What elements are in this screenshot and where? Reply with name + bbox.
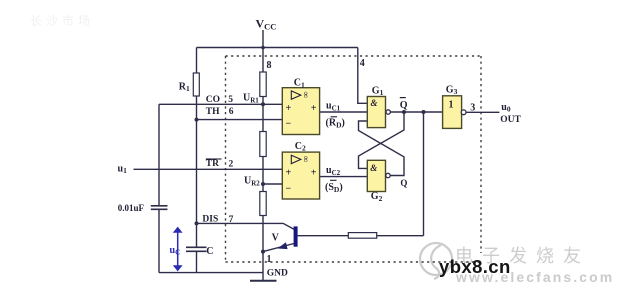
svg-text:GND: GND [267,269,288,279]
svg-text:长沙市场: 长沙市场 [30,13,94,28]
svg-text:−: − [286,184,292,195]
svg-text:+: + [286,103,292,114]
svg-text:−: − [286,119,292,130]
svg-text:+: + [311,167,317,178]
svg-text:C: C [206,246,213,257]
svg-text:C1: C1 [294,78,305,90]
svg-text:G3: G3 [446,84,458,96]
svg-text:ybx8.cn: ybx8.cn [439,256,511,277]
svg-text:4: 4 [360,58,365,69]
svg-text:+: + [311,103,317,114]
svg-text:2: 2 [229,159,234,169]
svg-text:&: & [370,163,377,173]
svg-text:TH: TH [206,107,220,117]
svg-text:DIS: DIS [202,215,218,225]
svg-text:+: + [286,167,292,178]
svg-text:&: & [371,98,378,108]
svg-text:UR1: UR1 [243,93,259,105]
svg-text:(RD): (RD) [326,118,345,130]
svg-text:u0: u0 [501,102,511,114]
svg-text:uC: uC [170,245,181,257]
svg-text:Q: Q [400,100,408,111]
svg-text:∞: ∞ [301,156,311,162]
svg-text:G1: G1 [372,85,384,97]
svg-text:7: 7 [229,215,234,225]
svg-text:G2: G2 [371,191,383,203]
svg-text:uC2: uC2 [326,165,341,177]
svg-text:Q: Q [400,178,407,188]
svg-text:u1: u1 [118,163,128,175]
svg-text:(SD): (SD) [325,182,343,194]
svg-text:R1: R1 [179,82,190,94]
svg-text:6: 6 [229,107,234,117]
svg-text:3: 3 [470,102,475,113]
svg-text:∞: ∞ [301,92,311,98]
svg-text:0.01uF: 0.01uF [118,203,145,213]
svg-text:8: 8 [267,60,272,71]
svg-text:CO: CO [206,95,220,105]
svg-text:TR: TR [206,159,219,169]
svg-text:5: 5 [228,95,233,105]
svg-text:1: 1 [267,254,272,265]
svg-text:C2: C2 [295,141,306,153]
svg-text:1: 1 [449,100,454,111]
svg-text:UR2: UR2 [244,176,260,188]
svg-text:V: V [272,233,280,244]
svg-text:VCC: VCC [256,17,277,32]
svg-text:uC1: uC1 [326,101,341,113]
svg-text:OUT: OUT [500,115,521,125]
